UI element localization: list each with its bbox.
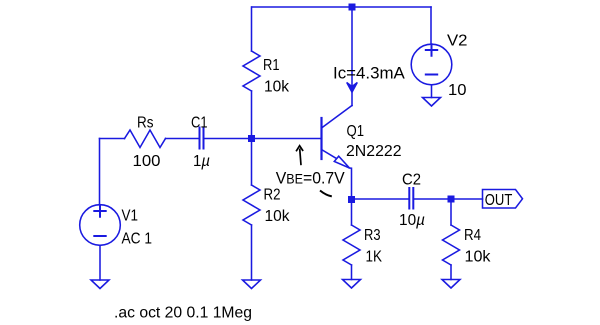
ground R3 [343,280,361,289]
capacitor C1 [200,128,204,149]
svg-text:10k: 10k [465,248,492,265]
wire C1 to base [205,138,322,140]
ground R4 [442,280,460,289]
svg-text:V1: V1 [122,208,139,225]
wire C2 to R4 node [414,198,451,200]
transistor Q1 base bar [320,118,322,159]
wire R2 top lead [251,139,253,186]
svg-text:R4: R4 [464,227,481,244]
source V2 circle [411,44,452,85]
svg-text:1µ: 1µ [193,153,210,170]
annotation pointer curve under VBE label [320,191,332,197]
svg-text:Q1: Q1 [347,123,365,140]
wire collector lead [351,7,353,106]
wire emitter node to C2 [352,198,409,200]
resistor R2 [243,185,260,225]
wire emitter lead [350,168,352,200]
svg-text:AC 1: AC 1 [122,231,153,248]
svg-text:10µ: 10µ [399,212,425,229]
svg-text:10k: 10k [264,78,290,95]
junction base node [248,135,255,142]
svg-text:C2: C2 [402,172,421,189]
svg-text:R2: R2 [264,187,281,204]
junction output node [448,196,455,203]
wire R2 bottom lead [251,225,253,280]
svg-text:2N2222: 2N2222 [346,143,402,160]
capacitor C2 [409,188,413,209]
ground V2 [423,98,441,107]
wire R3 bottom lead [351,265,353,280]
svg-text:10k: 10k [265,208,291,225]
annotation arrow toward base-emitter [300,149,301,166]
svg-text:.ac oct 20 0.1 1Meg: .ac oct 20 0.1 1Meg [114,305,252,322]
junction emitter node [348,196,355,203]
wire R4 node to OUT flag [451,198,483,200]
wire V1 top lead [99,139,101,205]
V1 minus sign [94,235,105,237]
wire R4 top lead [450,199,452,225]
svg-text:VBE=0.7V: VBE=0.7V [276,169,346,188]
resistor R4 [443,225,460,265]
wire Rs to C1 [166,138,199,140]
V1 plus sign [94,205,105,216]
wire R1 bottom lead [251,91,253,139]
svg-text:OUT: OUT [485,192,513,209]
wire R3 top lead [351,200,353,226]
resistor R3 [343,225,360,265]
svg-text:C1: C1 [191,115,208,132]
wire V1 to ground [99,245,101,280]
svg-text:Ic=4.3mA: Ic=4.3mA [333,64,405,83]
wire R4 bottom lead [450,265,452,280]
svg-text:10: 10 [448,82,467,99]
ground V1 [91,280,109,289]
current arrow Ic [347,83,358,93]
transistor Q1 emitter arrowhead [334,156,349,168]
svg-text:V2: V2 [447,33,468,50]
wire R1 top lead [251,7,253,51]
source V1 circle [80,205,121,246]
V2 plus sign [426,44,437,55]
resistor Rs [125,130,166,148]
ground R2 [243,280,261,289]
svg-text:1K: 1K [366,248,383,265]
node OUT flag [483,190,523,209]
wire base rail left segment [100,138,125,140]
junction top rail node [349,4,356,11]
wire V2 to ground [431,85,433,98]
transistor Q1 emitter diagonal [322,150,337,159]
wire V2 top lead [430,7,432,44]
svg-text:R1: R1 [263,57,280,74]
svg-text:100: 100 [133,153,161,170]
wire top rail [252,6,431,8]
svg-text:R3: R3 [364,227,381,244]
transistor Q1 collector diagonal [322,106,353,129]
resistor R1 [243,51,260,91]
svg-text:Rs: Rs [137,115,154,132]
V2 minus sign [426,74,437,76]
